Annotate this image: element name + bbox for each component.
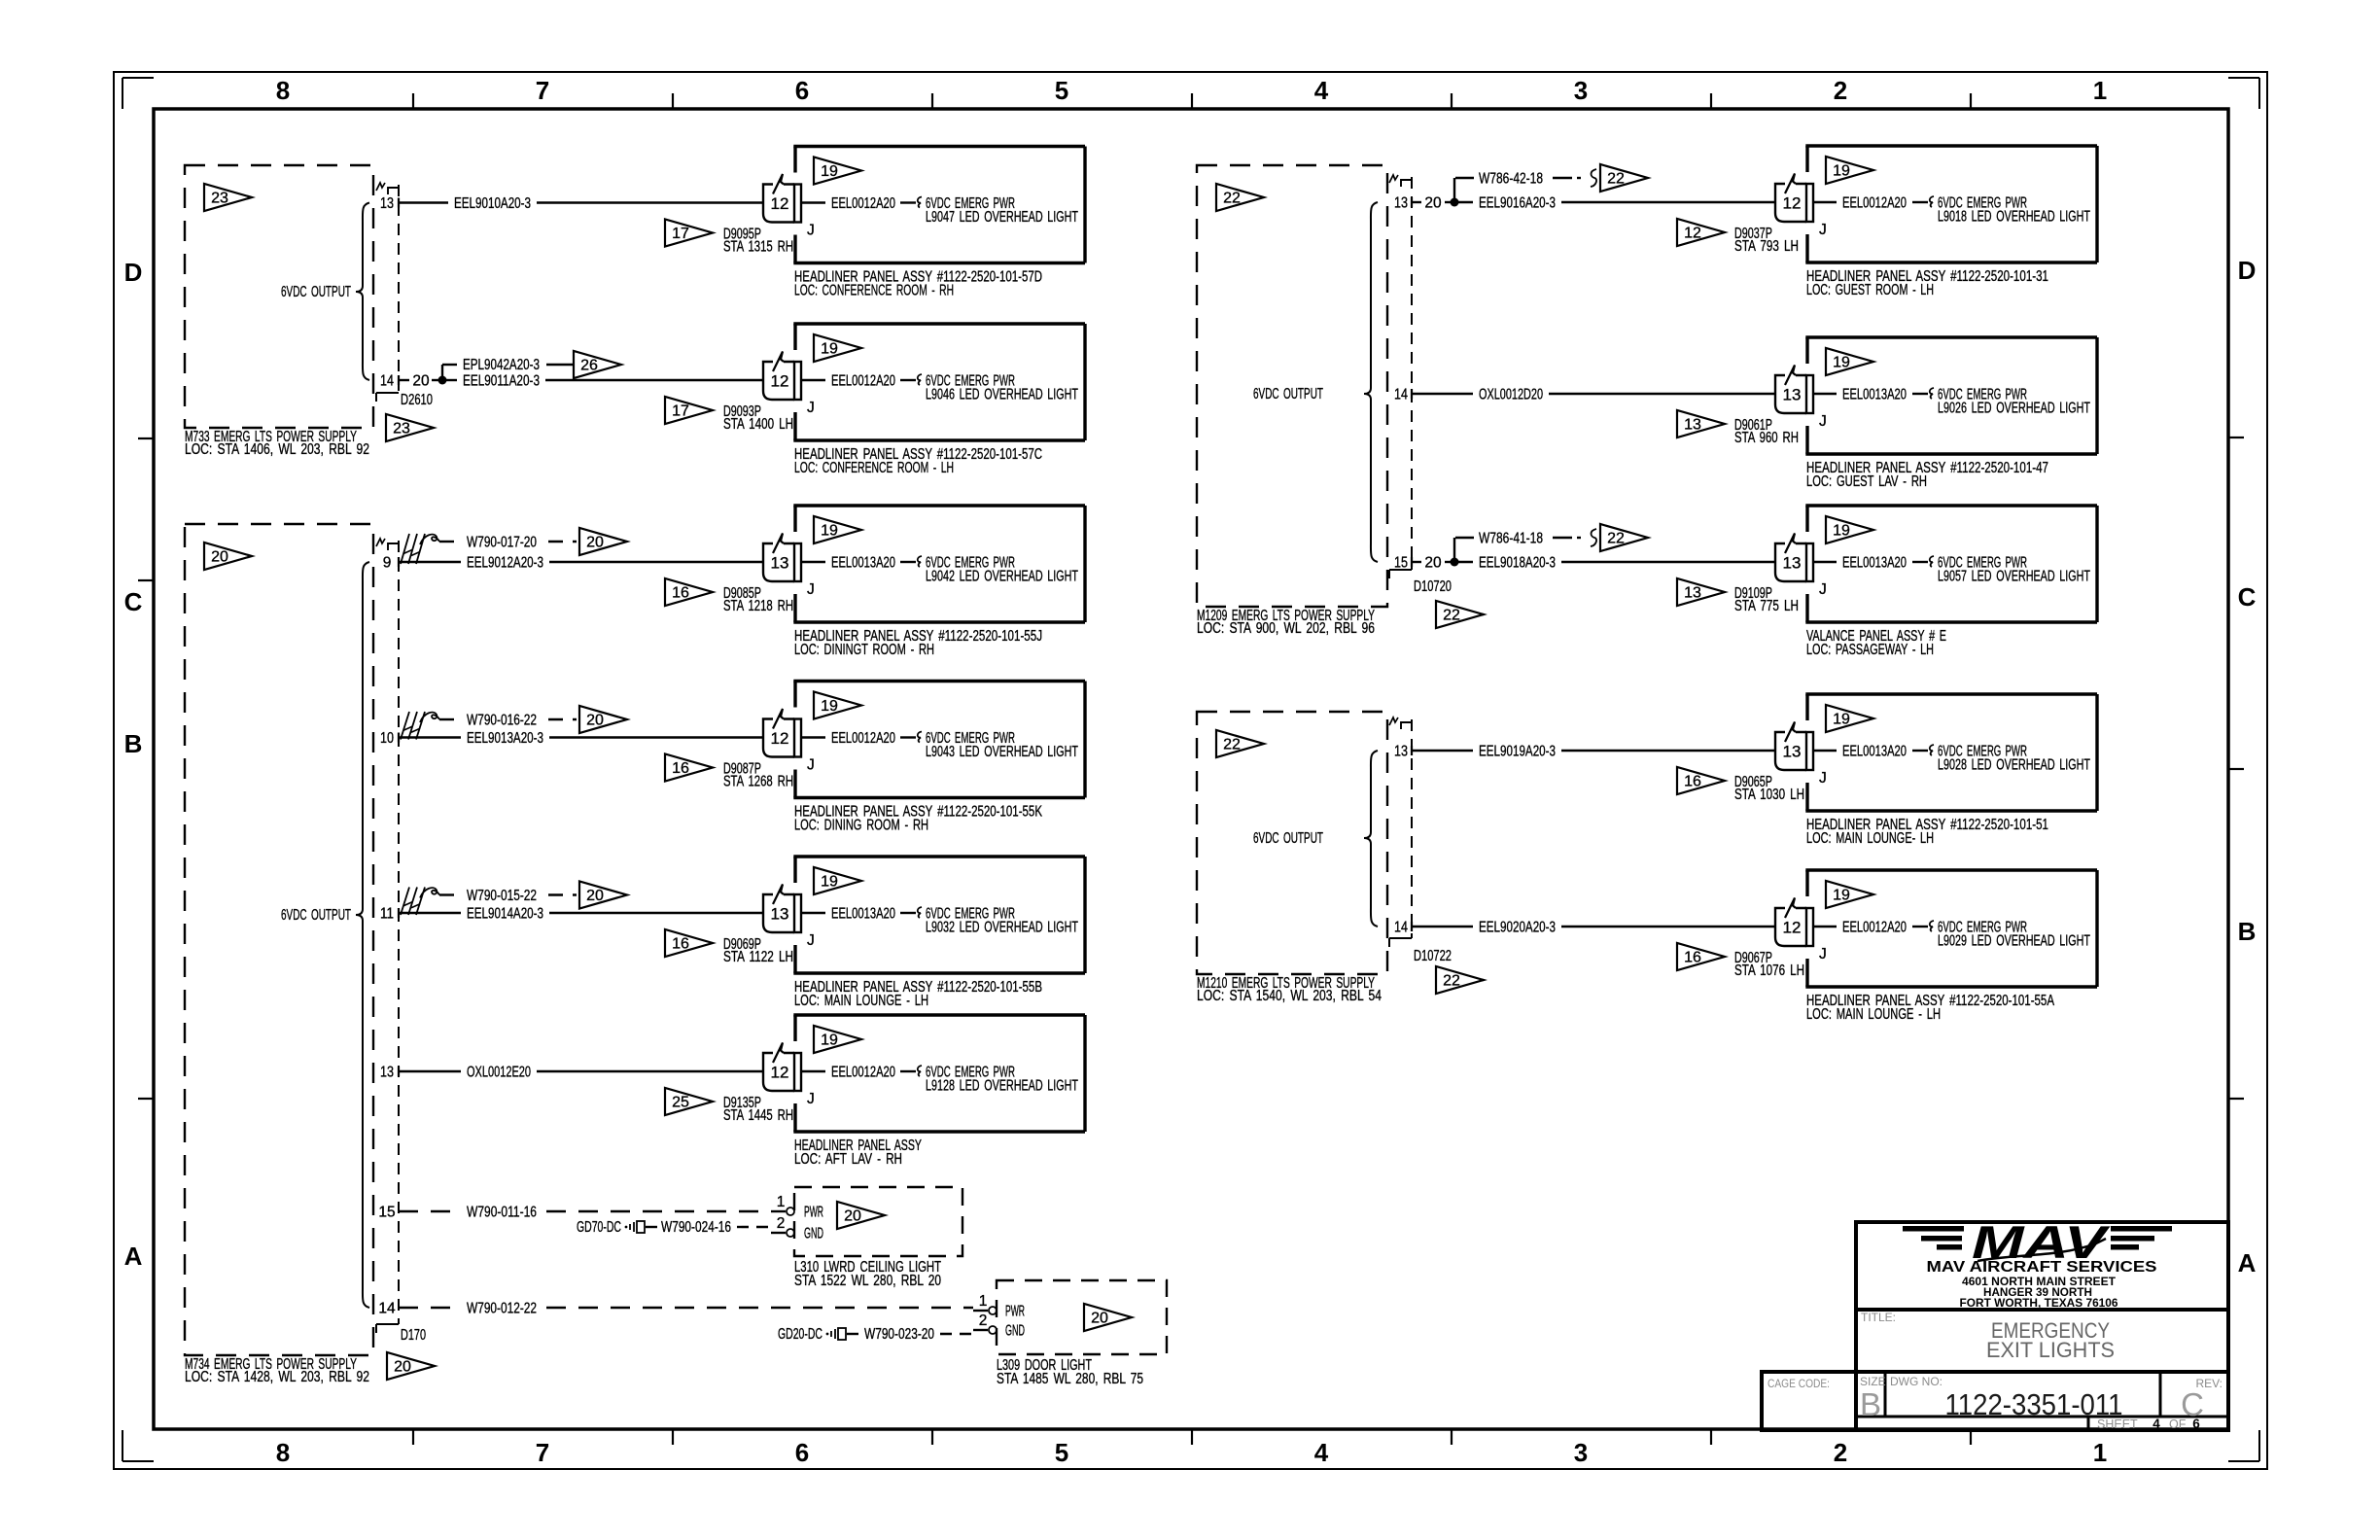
svg-text:6VDC OUTPUT: 6VDC OUTPUT <box>1253 830 1323 847</box>
svg-text:19: 19 <box>1833 712 1850 728</box>
svg-text:J: J <box>807 1091 815 1107</box>
svg-text:6: 6 <box>795 76 809 105</box>
svg-text:L9018 LED OVERHEAD LIGHT: L9018 LED OVERHEAD LIGHT <box>1938 209 2090 226</box>
svg-text:2: 2 <box>1834 76 1847 105</box>
svg-text:A: A <box>2238 1248 2257 1277</box>
svg-text:16: 16 <box>1684 950 1701 966</box>
svg-text:EEL0012A20: EEL0012A20 <box>831 373 895 390</box>
svg-text:L9042 LED OVERHEAD LIGHT: L9042 LED OVERHEAD LIGHT <box>926 569 1078 585</box>
svg-text:19: 19 <box>1833 523 1850 540</box>
svg-text:6: 6 <box>2192 1417 2200 1431</box>
svg-text:6VDC OUTPUT: 6VDC OUTPUT <box>1253 386 1323 402</box>
svg-text:W786-41-18: W786-41-18 <box>1479 531 1543 547</box>
svg-text:20: 20 <box>1424 195 1442 212</box>
svg-text:5: 5 <box>1055 1438 1068 1467</box>
svg-text:EEL9010A20-3: EEL9010A20-3 <box>454 195 531 212</box>
svg-text:12: 12 <box>771 194 789 213</box>
svg-text:23: 23 <box>393 421 410 437</box>
svg-text:W790-016-22: W790-016-22 <box>467 713 537 729</box>
svg-text:20: 20 <box>586 535 604 551</box>
svg-text:GND: GND <box>1005 1323 1025 1340</box>
svg-text:16: 16 <box>672 585 689 602</box>
svg-text:1: 1 <box>979 1293 988 1310</box>
svg-text:C: C <box>2238 582 2257 612</box>
svg-text:STA 793 LH: STA 793 LH <box>1734 238 1799 255</box>
svg-text:W790-012-22: W790-012-22 <box>467 1301 537 1317</box>
svg-text:EEL0013A20: EEL0013A20 <box>831 906 895 923</box>
svg-text:J: J <box>1819 946 1827 962</box>
svg-text:J: J <box>807 581 815 598</box>
svg-text:15: 15 <box>378 1205 395 1221</box>
svg-text:B: B <box>1860 1386 1881 1422</box>
svg-text:17: 17 <box>672 226 689 242</box>
svg-text:12: 12 <box>1783 194 1802 213</box>
svg-text:L9026 LED OVERHEAD LIGHT: L9026 LED OVERHEAD LIGHT <box>1938 401 2090 417</box>
svg-text:B: B <box>124 729 143 758</box>
svg-text:LOC: CONFERENCE ROOM - RH: LOC: CONFERENCE ROOM - RH <box>794 283 954 299</box>
svg-text:EEL0013A20: EEL0013A20 <box>1842 744 1907 760</box>
svg-text:L9029 LED OVERHEAD LIGHT: L9029 LED OVERHEAD LIGHT <box>1938 933 2090 950</box>
svg-text:1: 1 <box>777 1194 786 1210</box>
svg-text:LOC: STA 1428, WL 203, RBL 92: LOC: STA 1428, WL 203, RBL 92 <box>185 1369 369 1385</box>
svg-text:EEL9020A20-3: EEL9020A20-3 <box>1479 920 1556 936</box>
svg-text:7: 7 <box>536 76 549 105</box>
svg-text:EEL9019A20-3: EEL9019A20-3 <box>1479 744 1556 760</box>
svg-text:EEL0013A20: EEL0013A20 <box>831 555 895 572</box>
svg-text:22: 22 <box>1607 531 1625 547</box>
svg-text:OXL0012E20: OXL0012E20 <box>467 1065 531 1081</box>
svg-text:19: 19 <box>821 1032 838 1049</box>
svg-text:EEL0012A20: EEL0012A20 <box>831 195 895 212</box>
svg-text:D2610: D2610 <box>401 392 433 408</box>
svg-text:13: 13 <box>1394 195 1408 212</box>
svg-text:EEL9013A20-3: EEL9013A20-3 <box>467 730 543 747</box>
svg-text:1122-3351-011: 1122-3351-011 <box>1945 1387 2123 1421</box>
svg-text:1: 1 <box>2093 1438 2107 1467</box>
svg-text:20: 20 <box>211 549 228 566</box>
svg-text:W786-42-18: W786-42-18 <box>1479 171 1543 188</box>
svg-text:LOC: MAIN LOUNGE - LH: LOC: MAIN LOUNGE - LH <box>1806 1006 1941 1023</box>
svg-text:W790-011-16: W790-011-16 <box>467 1205 537 1221</box>
svg-text:STA 1445 RH: STA 1445 RH <box>723 1107 793 1124</box>
svg-text:20: 20 <box>844 1208 861 1225</box>
svg-text:20: 20 <box>1091 1311 1108 1327</box>
svg-text:STA 1218 RH: STA 1218 RH <box>723 598 793 614</box>
svg-text:13: 13 <box>1394 744 1408 760</box>
svg-text:25: 25 <box>672 1095 689 1111</box>
svg-text:4: 4 <box>1314 1438 1329 1467</box>
svg-text:STA 1485 WL 280, RBL 75: STA 1485 WL 280, RBL 75 <box>997 1371 1143 1387</box>
svg-text:J: J <box>1819 222 1827 238</box>
svg-text:STA 1030 LH: STA 1030 LH <box>1734 787 1804 803</box>
svg-text:EEL0012A20: EEL0012A20 <box>1842 195 1907 212</box>
svg-text:1: 1 <box>2093 76 2107 105</box>
svg-text:EEL9016A20-3: EEL9016A20-3 <box>1479 195 1556 212</box>
svg-text:20: 20 <box>586 713 604 729</box>
svg-text:9: 9 <box>383 555 392 572</box>
svg-text:14: 14 <box>1394 920 1408 936</box>
svg-text:14: 14 <box>1394 387 1408 403</box>
svg-text:SHEET: SHEET <box>2097 1417 2138 1431</box>
svg-text:13: 13 <box>1783 386 1802 404</box>
svg-text:19: 19 <box>1833 355 1850 371</box>
svg-text:L9032 LED OVERHEAD LIGHT: L9032 LED OVERHEAD LIGHT <box>926 920 1078 936</box>
svg-text:2: 2 <box>979 1312 988 1329</box>
svg-text:13: 13 <box>1684 585 1701 602</box>
svg-text:STA 1268 RH: STA 1268 RH <box>723 774 793 790</box>
svg-text:LOC: CONFERENCE ROOM - LH: LOC: CONFERENCE ROOM - LH <box>794 460 954 476</box>
svg-text:7: 7 <box>536 1438 549 1467</box>
svg-text:12: 12 <box>1684 226 1701 242</box>
svg-text:EEL0013A20: EEL0013A20 <box>1842 555 1907 572</box>
svg-text:22: 22 <box>1607 171 1625 188</box>
svg-text:L9028 LED OVERHEAD LIGHT: L9028 LED OVERHEAD LIGHT <box>1938 757 2090 774</box>
svg-text:10: 10 <box>380 730 394 747</box>
svg-text:STA 1122 LH: STA 1122 LH <box>723 949 793 965</box>
svg-text:DWG NO:: DWG NO: <box>1890 1375 1942 1388</box>
svg-text:LOC: GUEST ROOM - LH: LOC: GUEST ROOM - LH <box>1806 282 1934 298</box>
svg-text:EXIT LIGHTS: EXIT LIGHTS <box>1986 1338 2115 1362</box>
svg-text:STA 1400 LH: STA 1400 LH <box>723 416 793 433</box>
svg-text:EEL0012A20: EEL0012A20 <box>831 730 895 747</box>
svg-text:J: J <box>1819 581 1827 598</box>
svg-text:EEL0012A20: EEL0012A20 <box>831 1065 895 1081</box>
svg-text:J: J <box>807 932 815 949</box>
svg-text:GD20-DC: GD20-DC <box>778 1326 822 1343</box>
svg-text:EEL0013A20: EEL0013A20 <box>1842 387 1907 403</box>
svg-text:13: 13 <box>1783 743 1802 761</box>
svg-text:CAGE CODE:: CAGE CODE: <box>1767 1377 1830 1390</box>
svg-text:PWR: PWR <box>1005 1304 1025 1320</box>
svg-text:D170: D170 <box>401 1327 426 1344</box>
svg-text:EEL0012A20: EEL0012A20 <box>1842 920 1907 936</box>
svg-text:12: 12 <box>1783 919 1802 937</box>
svg-text:11: 11 <box>380 906 394 923</box>
svg-text:STA 1076 LH: STA 1076 LH <box>1734 962 1804 979</box>
svg-text:2: 2 <box>1834 1438 1847 1467</box>
svg-text:PWR: PWR <box>804 1205 823 1221</box>
svg-text:LOC: PASSAGEWAY - LH: LOC: PASSAGEWAY - LH <box>1806 642 1934 658</box>
svg-text:5: 5 <box>1055 76 1068 105</box>
svg-text:EPL9042A20-3: EPL9042A20-3 <box>463 357 540 373</box>
svg-text:12: 12 <box>771 1064 789 1082</box>
svg-text:J: J <box>807 400 815 416</box>
svg-text:6VDC OUTPUT: 6VDC OUTPUT <box>281 907 351 924</box>
svg-text:J: J <box>1819 770 1827 787</box>
svg-text:D: D <box>124 258 143 287</box>
svg-text:GD70-DC: GD70-DC <box>577 1219 621 1236</box>
svg-text:LOC: STA 900, WL 202, RBL 96: LOC: STA 900, WL 202, RBL 96 <box>1197 620 1375 637</box>
svg-text:19: 19 <box>821 698 838 715</box>
svg-text:A: A <box>124 1242 143 1271</box>
svg-text:20: 20 <box>394 1359 411 1376</box>
svg-text:FORT WORTH, TEXAS 76106: FORT WORTH, TEXAS 76106 <box>1960 1298 2118 1310</box>
svg-text:EEL9011A20-3: EEL9011A20-3 <box>463 373 540 390</box>
svg-text:16: 16 <box>672 936 689 953</box>
svg-text:STA 1315 RH: STA 1315 RH <box>723 239 793 256</box>
svg-text:LOC: DININGT ROOM - RH: LOC: DININGT ROOM - RH <box>794 642 934 658</box>
svg-text:LOC: MAIN LOUNGE - LH: LOC: MAIN LOUNGE - LH <box>794 993 928 1009</box>
svg-text:19: 19 <box>821 523 838 540</box>
svg-text:D: D <box>2238 256 2257 285</box>
svg-text:22: 22 <box>1223 737 1241 753</box>
svg-text:W790-017-20: W790-017-20 <box>467 535 537 551</box>
svg-text:22: 22 <box>1443 608 1460 624</box>
svg-text:W790-024-16: W790-024-16 <box>661 1219 731 1236</box>
svg-text:14: 14 <box>380 373 394 390</box>
svg-text:13: 13 <box>771 554 789 573</box>
svg-text:3: 3 <box>1574 76 1588 105</box>
svg-text:4: 4 <box>2152 1417 2160 1431</box>
svg-text:LOC: AFT LAV - RH: LOC: AFT LAV - RH <box>794 1151 902 1168</box>
svg-text:13: 13 <box>771 905 789 924</box>
svg-text:EEL9014A20-3: EEL9014A20-3 <box>467 906 543 923</box>
svg-text:20: 20 <box>1424 555 1442 572</box>
svg-text:OF: OF <box>2169 1417 2187 1431</box>
svg-text:4: 4 <box>1314 76 1329 105</box>
svg-text:3: 3 <box>1574 1438 1588 1467</box>
svg-text:15: 15 <box>1394 555 1408 572</box>
svg-text:12: 12 <box>771 729 789 748</box>
svg-text:13: 13 <box>1783 554 1802 573</box>
svg-text:W790-023-20: W790-023-20 <box>864 1326 934 1343</box>
svg-text:23: 23 <box>211 191 228 207</box>
svg-text:LOC: DINING ROOM - RH: LOC: DINING ROOM - RH <box>794 818 928 834</box>
svg-text:17: 17 <box>672 403 689 420</box>
svg-text:22: 22 <box>1223 191 1241 207</box>
svg-text:19: 19 <box>821 163 838 180</box>
svg-text:13: 13 <box>380 1065 394 1081</box>
svg-text:EEL9012A20-3: EEL9012A20-3 <box>467 555 543 572</box>
svg-text:12: 12 <box>771 372 789 391</box>
svg-text:STA 1522 WL 280, RBL 20: STA 1522 WL 280, RBL 20 <box>794 1273 941 1289</box>
svg-text:8: 8 <box>276 1438 290 1467</box>
svg-text:L9047 LED OVERHEAD LIGHT: L9047 LED OVERHEAD LIGHT <box>926 209 1078 226</box>
svg-text:GND: GND <box>804 1226 823 1242</box>
svg-text:L9128 LED OVERHEAD LIGHT: L9128 LED OVERHEAD LIGHT <box>926 1078 1078 1095</box>
svg-text:16: 16 <box>1684 774 1701 790</box>
svg-text:19: 19 <box>1833 888 1850 904</box>
svg-text:6: 6 <box>795 1438 809 1467</box>
svg-text:8: 8 <box>276 76 290 105</box>
svg-text:2: 2 <box>777 1215 786 1232</box>
svg-text:6VDC OUTPUT: 6VDC OUTPUT <box>281 284 351 300</box>
svg-text:J: J <box>807 223 815 239</box>
svg-text:LOC: MAIN LOUNGE- LH: LOC: MAIN LOUNGE- LH <box>1806 830 1934 847</box>
svg-text:STA 775 LH: STA 775 LH <box>1734 598 1799 614</box>
svg-text:W790-015-22: W790-015-22 <box>467 888 537 904</box>
svg-text:LOC: GUEST LAV - RH: LOC: GUEST LAV - RH <box>1806 473 1927 490</box>
svg-text:19: 19 <box>821 341 838 358</box>
svg-text:20: 20 <box>586 888 604 904</box>
svg-text:D10722: D10722 <box>1414 948 1452 964</box>
svg-text:J: J <box>1819 413 1827 430</box>
svg-text:OXL0012D20: OXL0012D20 <box>1479 387 1543 403</box>
svg-text:EEL9018A20-3: EEL9018A20-3 <box>1479 555 1556 572</box>
svg-text:14: 14 <box>378 1301 396 1317</box>
svg-text:B: B <box>2238 917 2257 946</box>
svg-text:D10720: D10720 <box>1414 578 1452 595</box>
svg-text:16: 16 <box>672 760 689 777</box>
svg-text:L9046 LED OVERHEAD LIGHT: L9046 LED OVERHEAD LIGHT <box>926 387 1078 403</box>
svg-text:MAV AIRCRAFT SERVICES: MAV AIRCRAFT SERVICES <box>1927 1259 2157 1276</box>
svg-text:L9043 LED OVERHEAD LIGHT: L9043 LED OVERHEAD LIGHT <box>926 744 1078 760</box>
svg-text:13: 13 <box>1684 417 1701 434</box>
svg-text:19: 19 <box>1833 163 1850 180</box>
svg-text:J: J <box>807 757 815 774</box>
svg-text:13: 13 <box>380 195 394 212</box>
svg-text:26: 26 <box>580 358 598 374</box>
svg-text:LOC: STA 1540, WL 203, RBL 54: LOC: STA 1540, WL 203, RBL 54 <box>1197 988 1382 1004</box>
svg-text:22: 22 <box>1443 973 1460 990</box>
svg-text:STA 960 RH: STA 960 RH <box>1734 430 1799 446</box>
svg-text:TITLE:: TITLE: <box>1861 1311 1896 1324</box>
svg-text:C: C <box>124 587 143 616</box>
svg-text:20: 20 <box>412 373 430 390</box>
svg-text:19: 19 <box>821 874 838 891</box>
svg-text:LOC: STA 1406, WL 203, RBL 92: LOC: STA 1406, WL 203, RBL 92 <box>185 441 369 458</box>
svg-text:L9057 LED OVERHEAD LIGHT: L9057 LED OVERHEAD LIGHT <box>1938 569 2090 585</box>
